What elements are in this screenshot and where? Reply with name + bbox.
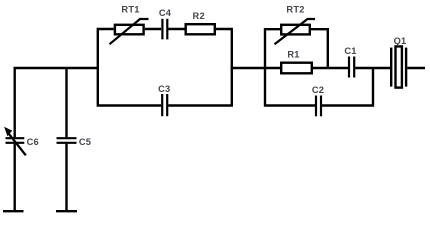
crystal Q1 xyxy=(391,46,406,87)
wire C5 bottom vertical xyxy=(65,144,67,210)
wire main between blocks xyxy=(231,67,280,69)
svg-text:RT1: RT1 xyxy=(121,5,139,15)
ground bar left xyxy=(3,210,24,212)
svg-text:C4: C4 xyxy=(159,8,172,18)
wire C1 to Q1 xyxy=(355,67,390,69)
svg-text:Q1: Q1 xyxy=(394,36,407,46)
resistor RT1 xyxy=(110,19,149,44)
resistor R1 xyxy=(281,63,312,74)
capacitor C6 xyxy=(4,127,26,156)
svg-text:C6: C6 xyxy=(27,137,39,147)
wire Q1 to right end xyxy=(407,67,425,69)
wire C5 branch vertical top xyxy=(65,68,67,137)
ground bar right xyxy=(56,210,77,212)
resistor R2 xyxy=(186,24,215,34)
wire RT1 to C4 xyxy=(145,28,161,30)
capacitor C3 xyxy=(162,94,167,116)
capacitor C2 xyxy=(316,96,321,117)
svg-text:C2: C2 xyxy=(312,85,324,95)
wire R1 to C1 xyxy=(313,67,348,69)
svg-text:R1: R1 xyxy=(287,49,299,59)
capacitor C5 xyxy=(57,138,77,143)
capacitor C1 xyxy=(349,57,354,78)
svg-text:RT2: RT2 xyxy=(286,5,304,15)
svg-text:C5: C5 xyxy=(79,137,91,147)
wire C4 to R2 xyxy=(168,28,184,30)
wire R2 to right vertical down to C3 branch xyxy=(168,29,232,106)
capacitor C4 xyxy=(162,19,167,40)
svg-text:R2: R2 xyxy=(193,11,205,21)
resistor RT2 xyxy=(275,19,316,44)
wire C6 bottom vertical xyxy=(13,144,15,210)
wire right block left vertical with top and bottom branches xyxy=(265,29,315,105)
wire middle block left vertical + branches xyxy=(98,29,161,106)
svg-text:C1: C1 xyxy=(344,46,356,56)
svg-text:C3: C3 xyxy=(158,84,170,94)
wire junction down to C2 branch xyxy=(322,68,373,106)
wire RT2 to right vertical of loop xyxy=(311,29,328,68)
wire main left horizontal with C6 corner xyxy=(15,68,98,137)
